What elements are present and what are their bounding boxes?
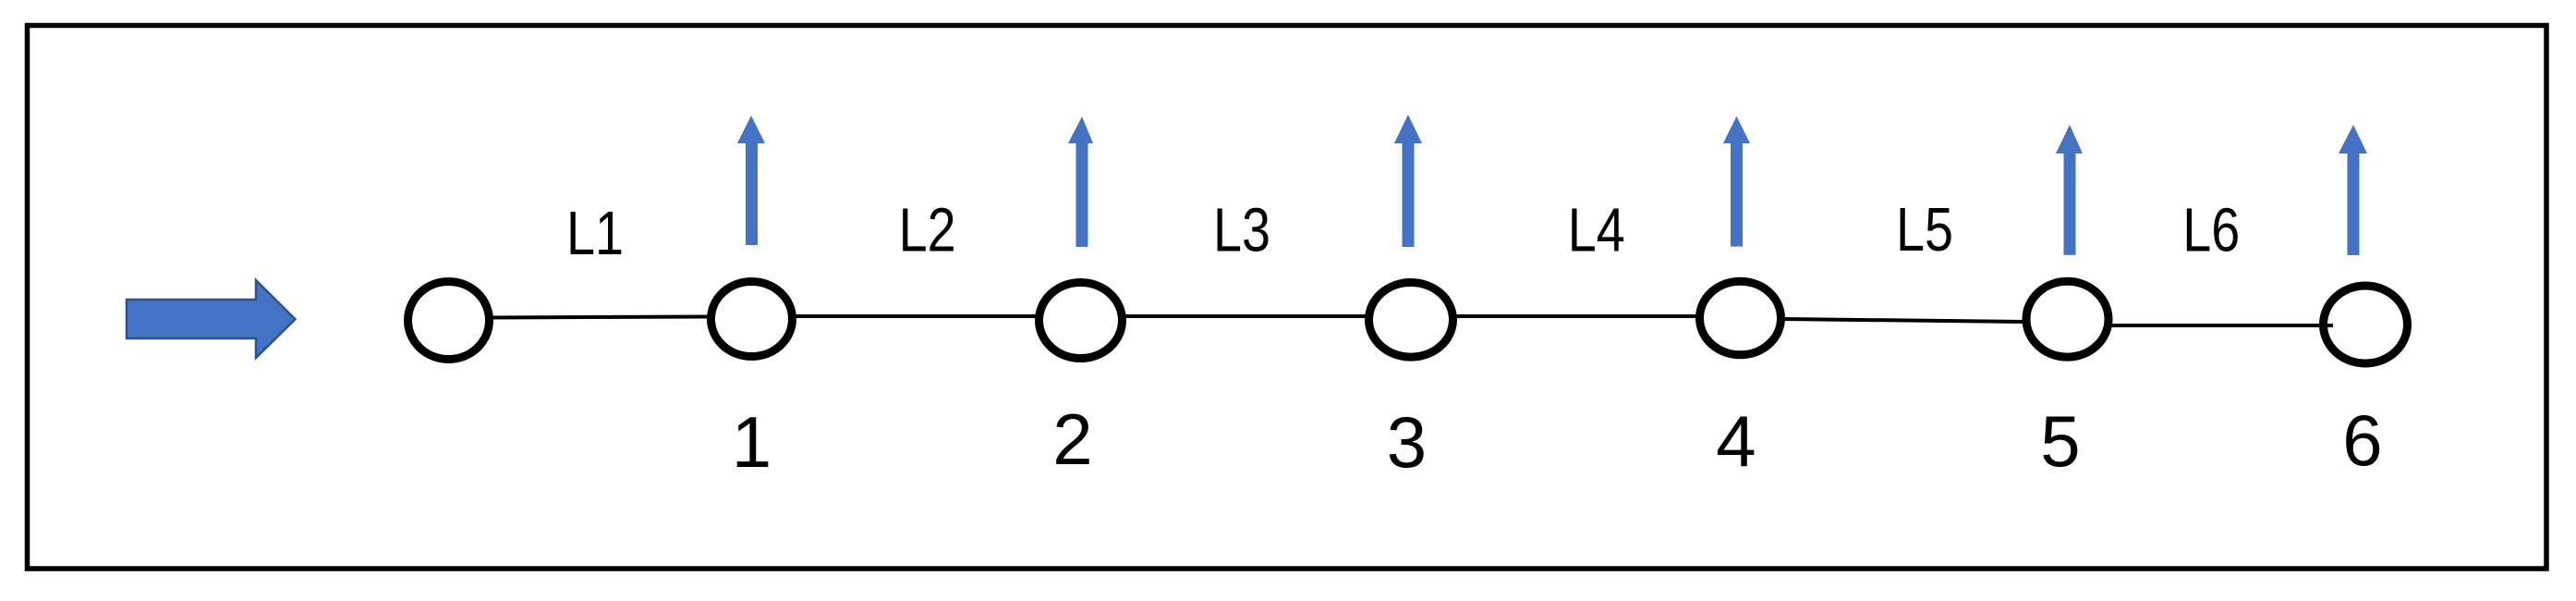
svg-text:L1: L1 xyxy=(566,199,624,268)
output arrow at node 2 xyxy=(1068,117,1093,247)
node 5 xyxy=(2026,281,2108,357)
svg-text:4: 4 xyxy=(1716,400,1756,482)
node 1 xyxy=(711,282,793,357)
node 2 xyxy=(1039,283,1123,359)
node 3 xyxy=(1369,283,1453,358)
wire segment L5 xyxy=(1783,319,2023,322)
input force arrow (big blue right arrow) xyxy=(127,280,296,358)
wire segment L3 xyxy=(1124,314,1367,318)
wire stub entering node 6 xyxy=(2319,324,2333,327)
svg-text:L4: L4 xyxy=(1568,196,1625,265)
wire segment L6 xyxy=(2110,324,2331,327)
wire segment L1 xyxy=(492,317,709,318)
svg-text:2: 2 xyxy=(1052,399,1092,480)
svg-text:L2: L2 xyxy=(899,196,956,265)
node 0 (input node, unnumbered) xyxy=(408,282,490,360)
svg-text:L5: L5 xyxy=(1896,195,1953,264)
svg-text:6: 6 xyxy=(2342,399,2382,481)
svg-text:3: 3 xyxy=(1387,401,1427,483)
svg-text:L3: L3 xyxy=(1213,196,1270,265)
node 4 xyxy=(1700,281,1781,355)
svg-text:5: 5 xyxy=(2040,400,2080,482)
wire segment L4 xyxy=(1455,314,1697,318)
output arrow at node 5 xyxy=(2056,125,2083,255)
wire segment L2 xyxy=(795,314,1037,318)
output arrow at node 6 xyxy=(2339,125,2367,255)
svg-text:1: 1 xyxy=(732,401,772,483)
output arrow at node 1 xyxy=(737,116,765,245)
node 6 xyxy=(2324,286,2408,363)
output arrow at node 4 xyxy=(1723,117,1750,247)
svg-text:L6: L6 xyxy=(2182,196,2240,265)
output arrow at node 3 xyxy=(1394,115,1422,247)
